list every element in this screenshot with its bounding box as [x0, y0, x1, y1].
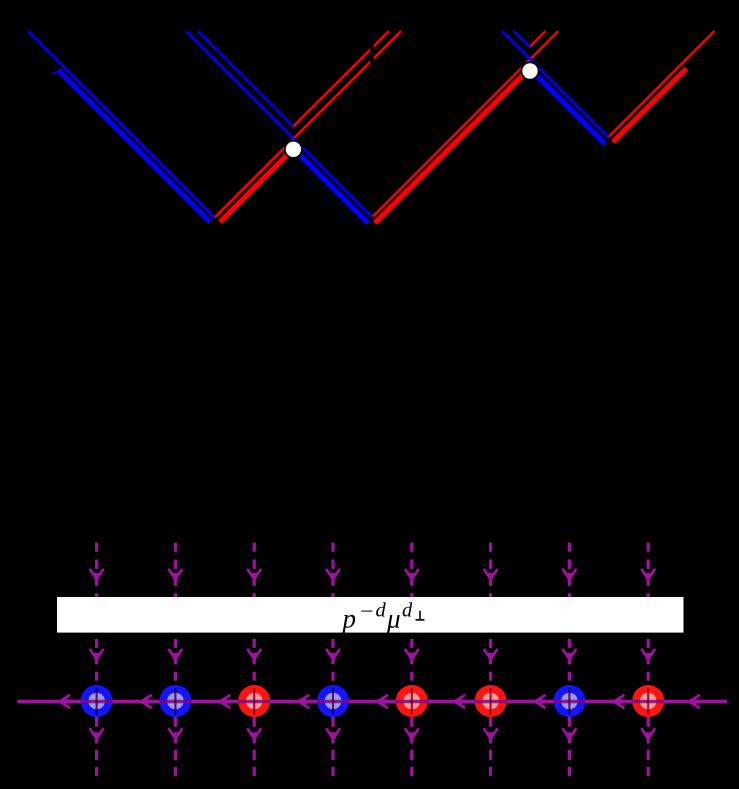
chain arrowhead 8 (left) [614, 696, 624, 708]
site 1 (blue spin) [81, 685, 113, 717]
chain arrowhead 9 (left) [689, 696, 699, 708]
svg-text:−: − [360, 601, 374, 623]
measurement dashed line col 6 [484, 543, 497, 776]
thick blue worldline circle 1 to V2 [300, 155, 368, 223]
collision circle 2 [521, 62, 538, 79]
thin red wedge arm above circle 2 [530, 31, 546, 47]
chain arrowhead 2 (left) [141, 696, 151, 708]
chain arrowhead 3 (left) [220, 696, 230, 708]
measurement dashed line col 1 [90, 543, 103, 776]
thin red ray from vertex V3 up-right [608, 31, 714, 137]
black gap strip over red rays [370, 43, 374, 67]
thick red worldline V1 to circle 1 [220, 154, 288, 222]
thin blue wedge arm above circle 2 [514, 31, 531, 48]
site 6 (red spin) [475, 685, 507, 717]
chain arrowhead 6 (left) [455, 696, 465, 708]
small blue blob at worldline start [53, 72, 56, 75]
thin blue ray 3 down-right to V3 [502, 31, 608, 137]
chain arrowhead 4 (left) [299, 696, 309, 708]
math label p^(-d) mu^(d_perp) [341, 600, 425, 634]
thin red wedge arm above circle 1 [293, 31, 389, 126]
thin blue wedge arm above circle 1 [198, 31, 294, 127]
thick blue worldline circle 2 to V3 [536, 75, 606, 145]
thick blue worldline start down to V1 [58, 70, 210, 222]
thick red worldline from V3 up-right [613, 69, 687, 143]
chain arrowhead 7 (left) [535, 696, 545, 708]
svg-text:μ: μ [386, 604, 401, 634]
site 8 (red spin) [632, 685, 664, 717]
thin blue ray 2 down-right to V2 [186, 31, 372, 217]
measurement dashed line col 5 [406, 543, 419, 776]
site 3 (red spin) [238, 685, 270, 717]
measurement dashed line col 7 [563, 543, 576, 776]
white weight box [57, 597, 684, 633]
chain arrowhead 1 (left) [60, 696, 70, 708]
measurement dashed line col 2 [169, 543, 182, 776]
site 4 (blue spin) [317, 685, 349, 717]
svg-text:p: p [341, 604, 357, 634]
thin red ray from vertex V2 up-right [373, 31, 559, 217]
svg-text:d: d [402, 600, 413, 622]
measurement dashed line col 3 [248, 543, 261, 776]
thin red ray from vertex V1 up-right [215, 31, 402, 218]
collision circle 1 [285, 141, 302, 158]
site 5 (red spin) [396, 685, 428, 717]
svg-text:d: d [376, 600, 387, 622]
measurement dashed line col 8 [642, 543, 655, 776]
chain arrowhead 5 (left) [377, 696, 387, 708]
measurement dashed line col 4 [327, 543, 340, 776]
site 2 (blue spin) [159, 685, 191, 717]
horizontal chain line [17, 700, 727, 704]
thin blue ray 1 down-right to V1 [28, 31, 215, 218]
thick red worldline V2 to circle 2 [375, 74, 524, 223]
site 7 (blue spin) [553, 685, 585, 717]
